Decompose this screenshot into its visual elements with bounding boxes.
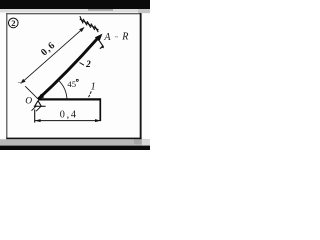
svg-text:45: 45: [67, 79, 76, 89]
svg-text:2: 2: [85, 60, 91, 70]
svg-text:~: ~: [115, 34, 119, 41]
svg-text:R: R: [121, 31, 128, 42]
svg-text:O: O: [25, 96, 32, 106]
svg-text:A: A: [103, 32, 111, 43]
svg-text:0,4: 0,4: [60, 109, 78, 120]
svg-text:2: 2: [11, 18, 15, 28]
svg-text:1: 1: [91, 81, 96, 92]
